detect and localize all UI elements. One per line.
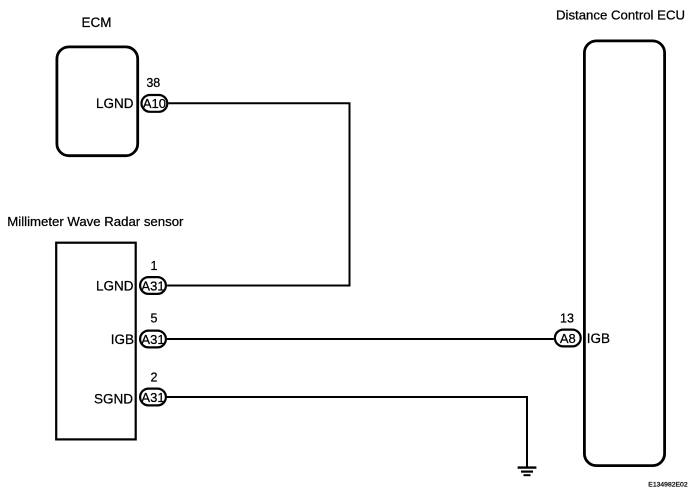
connector terminal A31 pin 1 [140,277,166,294]
svg-text:IGB: IGB [587,331,610,346]
figure number E134982E02 [648,482,688,489]
svg-text:SGND: SGND [94,391,133,406]
svg-text:A10: A10 [143,96,166,111]
radar pin label LGND [96,279,134,294]
pin number 2 [151,370,158,384]
svg-text:5: 5 [151,312,158,326]
connector terminal A10 [142,95,168,112]
wire: radar A31 pin2 to ground (SGND net) [167,397,527,467]
Millimeter Wave Radar sensor title [7,214,184,229]
connector terminal A8 [555,330,581,347]
ECM box U1 [57,47,138,156]
radar pin label IGB [111,332,134,347]
wire: radar A31 pin5 to ECU A8 (IGB net) [167,338,554,340]
ECU pin label IGB [587,331,610,346]
pin number 38 [146,76,160,90]
svg-text:1: 1 [151,259,158,273]
svg-text:Distance Control ECU: Distance Control ECU [556,7,685,22]
svg-text:2: 2 [151,370,158,384]
svg-text:IGB: IGB [111,332,134,347]
ECM title [82,15,112,30]
svg-text:A31: A31 [141,279,164,294]
Distance Control ECU box U3 [584,41,664,466]
svg-text:LGND: LGND [96,279,134,294]
connector terminal A31 pin 2 [140,389,166,406]
Millimeter Wave Radar sensor box U2 [56,243,136,440]
svg-text:13: 13 [560,312,574,326]
ground symbol [518,468,537,476]
svg-text:A31: A31 [141,390,164,405]
svg-text:Millimeter Wave Radar sensor: Millimeter Wave Radar sensor [7,214,184,229]
pin number 5 [151,312,158,326]
Distance Control ECU title [556,7,685,22]
pin number 13 [560,312,574,326]
svg-text:ECM: ECM [82,15,112,30]
connector terminal A31 pin 5 [140,331,166,348]
pin number 1 [151,259,158,273]
svg-text:A8: A8 [560,331,576,346]
svg-text:38: 38 [146,76,160,90]
radar pin label SGND [94,391,133,406]
svg-text:LGND: LGND [96,96,134,111]
ECM pin label LGND [96,96,134,111]
wire: ECM A10 to radar A31 (LGND net) [167,103,349,285]
svg-text:A31: A31 [141,332,164,347]
svg-text:E134982E02: E134982E02 [648,482,688,489]
